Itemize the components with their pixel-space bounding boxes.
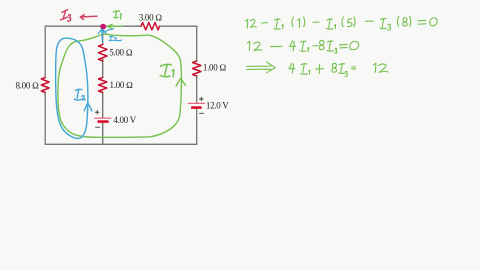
- handwritten green I1 label (inside right): [160, 64, 174, 76]
- handwritten tiny blue I2 near junction: [109, 36, 122, 41]
- svg-text:8.00 Ω: 8.00 Ω: [15, 80, 39, 90]
- blue diagonal stroke near junction: [103, 29, 114, 32]
- wire left upper: [44, 26, 46, 77]
- blue loop (tall inner loop): [56, 38, 88, 138]
- implies double arrow: [247, 62, 276, 73]
- battery 4.00 V long plate: [95, 117, 111, 119]
- resistor 3.00 ohm (top, horizontal): [141, 23, 160, 30]
- resistor 1.00 ohm (middle lower, vertical): [99, 78, 107, 93]
- wire left lower: [44, 93, 46, 145]
- handwritten blue I2 label: [74, 89, 85, 100]
- resistor 1.00 ohm (right, vertical): [193, 61, 201, 76]
- resistor 8.00 ohm (left, vertical): [41, 78, 49, 93]
- svg-text:12.0 V: 12.0 V: [206, 101, 229, 111]
- svg-text:4.00 V: 4.00 V: [113, 115, 136, 125]
- wire top-left segment: [45, 25, 141, 27]
- node junction dot: [100, 24, 106, 30]
- blue loop arrowhead (pointing up): [84, 103, 92, 111]
- svg-text:1.00 Ω: 1.00 Ω: [203, 62, 227, 72]
- wire top-right segment: [160, 25, 197, 27]
- battery 12.0 V short plate: [192, 106, 200, 109]
- wire right mid: [196, 76, 198, 103]
- equation line 1: 12 - I1(1) - I1(5) - I3(8) = 0: [246, 20, 248, 29]
- battery 4.00 V plus sign: [95, 110, 99, 114]
- handwritten red I3 label: [60, 10, 70, 22]
- green loop arrowhead (right side, pointing up): [176, 78, 185, 86]
- wire middle mid2: [102, 92, 104, 118]
- green arrow on top wire: [108, 24, 123, 29]
- svg-text:1.00 Ω: 1.00 Ω: [110, 80, 134, 90]
- svg-text:3.00 Ω: 3.00 Ω: [139, 12, 163, 22]
- wire right lower: [196, 108, 198, 145]
- handwritten red left arrow: [80, 15, 97, 20]
- battery 12.0 V plus sign: [200, 97, 204, 101]
- wire middle mid1: [102, 58, 104, 78]
- blue junction arrow (middle branch, pointing up): [98, 29, 106, 42]
- svg-text:5.00 Ω: 5.00 Ω: [109, 48, 133, 58]
- wire bottom: [45, 143, 197, 145]
- equation line 2: 12 - 4I1 - 8I3 = 0: [248, 41, 250, 50]
- battery 4.00 V minus sign: [96, 126, 100, 128]
- battery 12.0 V minus sign: [200, 112, 204, 114]
- green loop (big loop around right+bottom+left): [58, 34, 181, 137]
- handwritten green I1 label (top): [114, 11, 122, 19]
- wire middle lower: [102, 122, 104, 145]
- battery 12.0 V long plate: [188, 102, 204, 104]
- wire middle upper: [102, 26, 104, 44]
- resistor 5.00 ohm (middle upper, vertical): [98, 45, 107, 61]
- wire right upper: [196, 26, 198, 61]
- battery 4.00 V short plate: [99, 120, 108, 123]
